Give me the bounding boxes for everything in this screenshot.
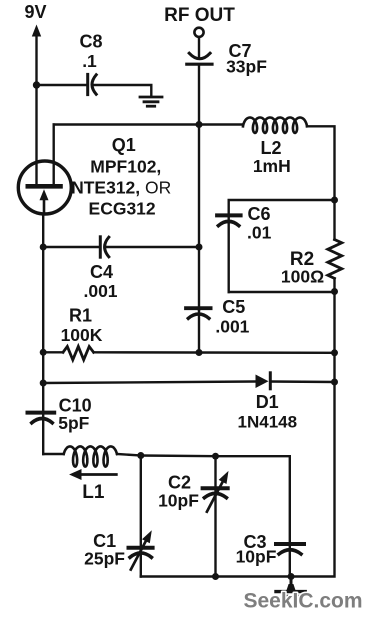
wire R1 bus left segment [43,351,63,353]
capacitor C3 [276,544,304,554]
svg-text:25pF: 25pF [84,548,125,568]
svg-text:C6: C6 [247,204,270,224]
wire C1 branch down [140,456,142,577]
wire C10 to L1 [43,453,64,455]
wire C7 down through junctions to C5 [198,66,200,125]
capacitor C8 [88,74,97,94]
capacitor C5 [186,308,211,318]
wire L2 right lead and right rail top [307,126,335,200]
node left R1 bus [40,349,47,356]
wire Q1 gate lead down [42,214,44,247]
node left D1 bus [40,380,47,387]
svg-text:10pF: 10pF [158,490,199,510]
svg-text:100Ω: 100Ω [281,266,324,286]
diode D1 [256,373,271,389]
wire right rail R2 to bottom [333,278,335,352]
node right rail R1 bus [331,349,338,356]
node 9V junction [33,81,40,88]
capacitor C10 [28,413,55,423]
wire L1 to C1 branch [117,454,141,456]
wire C6 box top [229,200,335,292]
svg-text:C5: C5 [222,297,245,317]
9V supply arrow [32,25,41,86]
wire right rail C6 node to R2 [333,200,335,240]
svg-text:5pF: 5pF [58,413,89,433]
node C3 bottom [288,573,295,580]
svg-text:100K: 100K [61,325,103,345]
wire D1 bus left segment [43,382,255,384]
svg-text:L2: L2 [260,138,281,158]
capacitor C7 [187,53,212,64]
wire 9V rail down to Q1 drain [35,85,37,184]
wire C4 feedback [43,246,98,248]
arrow under L1 [69,469,116,480]
capacitor C4 [100,237,109,257]
svg-text:D1: D1 [256,392,279,412]
svg-text:L1: L1 [82,482,105,503]
svg-text:C8: C8 [79,31,102,51]
svg-text:.1: .1 [82,51,97,71]
ground (bottom) [276,577,305,597]
svg-text:33pF: 33pF [226,57,267,77]
node RF junction on top wire [196,121,203,128]
wire Q1 source lead up to top wire [53,125,55,185]
node C6 top right [331,197,338,204]
svg-text:C4: C4 [90,262,113,282]
variable capacitor C2 [203,471,229,512]
wire C5 to R1 bus [198,308,200,353]
svg-text:ECG312: ECG312 [89,199,156,219]
wire bottom bus [216,575,292,577]
node C6 bottom right [331,288,338,295]
node C2 top [212,453,219,460]
node L1 right [137,452,144,459]
svg-text:10pF: 10pF [236,546,277,566]
svg-text:Q1: Q1 [112,135,136,155]
ground (top, after C8) [140,97,162,106]
RF OUT terminal [194,28,203,37]
svg-text:SeekIC.com: SeekIC.com [244,590,363,613]
wire C2 branch [214,456,216,576]
svg-text:MPF102,: MPF102, [90,156,161,176]
variable capacitor C1 [129,530,153,569]
wire right rail down [333,353,335,382]
inductor L1 [64,446,117,466]
inductor L2 [243,118,307,133]
wire right rail to bottom corner [291,382,335,577]
wire C6 box bottom [229,291,335,293]
svg-text:R1: R1 [69,305,92,325]
svg-text:RF OUT: RF OUT [164,5,235,26]
node C2 bottom [212,573,219,580]
wire left rail to C10 [42,383,44,454]
wire RF OUT down to C7 [198,37,200,59]
svg-text:.001: .001 [83,281,117,301]
svg-text:C2: C2 [168,472,191,492]
wire left rail down to R1 bus [42,247,44,352]
svg-text:.001: .001 [215,316,249,336]
svg-text:9V: 9V [24,2,46,22]
wire 9V junction to C8 [37,84,87,86]
wire tank top to C2 [141,454,216,457]
resistor R1 [63,347,94,360]
wire R1 bus right segment [94,351,335,354]
svg-text:NTE312, OR: NTE312, OR [71,177,171,197]
node C5 on R1 bus [196,349,203,356]
wire D1 bus right segment [270,380,334,383]
svg-text:1mH: 1mH [253,156,291,176]
node right rail D1 bus [331,379,338,386]
transistor Q1 (JFET) [18,161,71,214]
wire C1 to bottom wire [141,575,216,577]
svg-text:.01: .01 [247,222,272,242]
wire C8 to ground [94,85,152,96]
svg-text:1N4148: 1N4148 [238,412,298,431]
wire top horizontal (Q1 to L2) [54,123,243,125]
wire C4 to RF line [106,246,199,248]
capacitor C6 [217,215,241,225]
resistor R2 [328,240,342,279]
node gate junction [40,244,47,251]
node C4 wire junction [196,244,203,251]
wire tank top to C3 corner [216,456,290,576]
wire left rail to D1 bus [42,352,44,383]
